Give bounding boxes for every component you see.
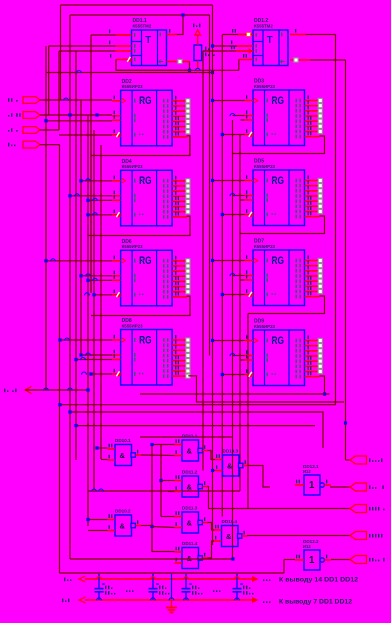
wire bbox=[59, 145, 61, 573]
DD9 output pin 6 bbox=[305, 365, 319, 367]
wire bbox=[88, 279, 112, 281]
DD10.2 input bbox=[108, 519, 116, 521]
svg-text:&: & bbox=[227, 462, 233, 471]
capacitor C4 hop over 0V rail bbox=[235, 598, 240, 601]
DD4 dynamic input marker bbox=[116, 212, 121, 217]
DD9 output indicator 4 bbox=[318, 354, 322, 358]
wire bbox=[101, 459, 108, 461]
DD5 dynamic input marker bbox=[248, 212, 253, 217]
DD1.1 input C stub bbox=[116, 50, 132, 52]
register DD3 bbox=[253, 90, 305, 146]
DD11.1 input bbox=[175, 444, 183, 446]
DD7 output indicator 4 bbox=[318, 274, 322, 278]
wire hop bbox=[230, 114, 235, 117]
label X3 bbox=[8, 130, 9, 132]
DD8 output indicator 1 bbox=[186, 338, 190, 342]
node bbox=[221, 293, 224, 296]
wire bbox=[70, 14, 210, 16]
wire bbox=[152, 444, 175, 446]
ground lead bbox=[171, 574, 173, 599]
DD11.4 output bbox=[203, 557, 209, 559]
NAND gate DD10.2 bbox=[115, 515, 135, 536]
DD6 output pin 6 bbox=[172, 286, 186, 288]
wire to XP1 bbox=[346, 459, 351, 461]
wire bbox=[239, 135, 241, 492]
DD7 input pin 4 bbox=[245, 294, 254, 296]
wire hop bbox=[92, 489, 97, 492]
DD7 output pin 1 bbox=[305, 260, 319, 262]
wire bbox=[46, 72, 213, 74]
label +5V left bbox=[64, 578, 65, 582]
connector XP4 bbox=[350, 532, 367, 540]
wire bbox=[76, 359, 112, 361]
wire bbox=[222, 134, 244, 136]
wire net SA2 bbox=[40, 114, 112, 116]
DD9 input pin 1 bbox=[245, 340, 254, 342]
DD10.3 output bbox=[243, 465, 249, 467]
label XP2 bbox=[369, 485, 370, 489]
node bbox=[74, 358, 77, 361]
node bbox=[95, 113, 98, 116]
node bbox=[221, 213, 224, 216]
svg-text:К выводу 7 DD1 DD12: К выводу 7 DD1 DD12 bbox=[279, 599, 353, 606]
DD10.3 input bbox=[215, 470, 223, 472]
wire bbox=[87, 525, 89, 527]
connector X5 arrow bbox=[25, 387, 32, 394]
DD11.4 input bbox=[175, 562, 183, 564]
wire bbox=[69, 15, 71, 559]
node bbox=[211, 259, 214, 262]
DD1.1 output Q- stub bbox=[167, 61, 177, 63]
capacitor C2 bbox=[149, 574, 159, 600]
DD6 input pin 3 bbox=[112, 279, 121, 281]
DD8 input pin 2 bbox=[112, 354, 121, 356]
register DD4 bbox=[121, 170, 173, 226]
wire bbox=[70, 412, 323, 448]
node bbox=[79, 179, 82, 182]
DD5 output indicator 5 bbox=[318, 199, 322, 203]
DD4 output indicator 4 bbox=[186, 194, 190, 198]
register DD5 bbox=[253, 170, 305, 226]
ground hop bbox=[169, 598, 174, 601]
DD2 output pin 6 bbox=[172, 126, 186, 128]
svg-text:RG: RG bbox=[139, 334, 152, 346]
DD1.2 clock arrow bbox=[249, 49, 253, 53]
DD4 input pin 2 bbox=[112, 195, 121, 197]
wire bbox=[75, 51, 77, 460]
DD7 clock arrow bbox=[254, 258, 258, 262]
DD5 input pin 3 bbox=[245, 199, 254, 201]
svg-text:&: & bbox=[187, 519, 193, 528]
wire bbox=[209, 15, 211, 356]
power rail +5V bbox=[85, 578, 252, 580]
DD10.4 output bbox=[242, 535, 248, 537]
wire bbox=[189, 136, 191, 156]
DD4 output pin 4 bbox=[172, 195, 186, 197]
DD4 output pin 2 bbox=[172, 185, 186, 187]
label C3 bbox=[192, 586, 193, 590]
DD4 output pin 5 bbox=[172, 200, 186, 202]
DD8 output pin 6 bbox=[172, 365, 186, 367]
svg-text:DD10.2: DD10.2 bbox=[115, 509, 131, 514]
DD9 output indicator 7 bbox=[318, 369, 322, 373]
rail arrow left +5V bbox=[79, 576, 86, 582]
wire bbox=[88, 530, 108, 532]
connector XP3 bbox=[350, 505, 367, 513]
DD3 output indicator 2 bbox=[318, 104, 322, 108]
R1 lead bottom bbox=[197, 61, 199, 69]
DD2 clock arrow bbox=[122, 99, 126, 103]
DD6 output indicator 6 bbox=[186, 285, 190, 289]
DD11.2 output bbox=[203, 486, 209, 488]
DD6 output pin 4 bbox=[172, 275, 186, 277]
register DD9 bbox=[253, 330, 305, 386]
DD3 input pin 1 bbox=[245, 100, 254, 102]
svg-text:&: & bbox=[187, 447, 193, 456]
DD5 output indicator 2 bbox=[318, 184, 322, 188]
svg-text:1: 1 bbox=[309, 480, 315, 491]
wire bbox=[213, 470, 216, 472]
DD2 dynamic input marker bbox=[116, 132, 121, 137]
node bbox=[150, 443, 153, 446]
wire bbox=[80, 100, 82, 356]
svg-text:DD10.4: DD10.4 bbox=[222, 519, 238, 524]
wire bbox=[97, 447, 108, 449]
wire bbox=[233, 195, 245, 197]
wire bbox=[238, 60, 240, 71]
DD7 output indicator 5 bbox=[318, 279, 322, 283]
wire hop bbox=[85, 293, 90, 296]
wire bbox=[241, 359, 245, 361]
DD9 output pin 4 bbox=[305, 355, 319, 357]
DD10.2 input bbox=[108, 530, 116, 532]
DD6 output pin 1 bbox=[172, 260, 186, 262]
DD11.4 input bbox=[175, 551, 183, 553]
DD5 output pin 6 bbox=[305, 205, 319, 207]
DD11.3 input bbox=[175, 516, 183, 518]
DD5 output pin 2 bbox=[305, 185, 319, 187]
DD5 output indicator 6 bbox=[318, 204, 322, 208]
wire hop bbox=[230, 194, 235, 197]
flip-flop DD1.1 bbox=[132, 30, 167, 66]
wire bbox=[222, 374, 244, 376]
node bbox=[95, 446, 98, 449]
capacitor C3 hop over 0V rail bbox=[184, 598, 189, 601]
DD4 output pin 8 bbox=[172, 216, 187, 218]
wire Q8 net bbox=[88, 216, 190, 235]
DD11.2 input bbox=[175, 480, 183, 482]
node bbox=[89, 372, 92, 375]
rail arrow right 0V bbox=[252, 597, 259, 603]
DD7 output pin 5 bbox=[305, 280, 319, 282]
wire bbox=[202, 51, 204, 471]
node bbox=[86, 199, 89, 202]
DD7 output indicator 6 bbox=[318, 284, 322, 288]
wire bbox=[233, 275, 245, 277]
wire bbox=[60, 339, 112, 341]
node bbox=[211, 44, 214, 47]
wire bbox=[60, 572, 285, 574]
DD5 output indicator 1 bbox=[318, 178, 322, 182]
label C1 bbox=[105, 586, 106, 590]
DD10.1 input bbox=[108, 448, 116, 450]
DD9 output indicator 1 bbox=[318, 338, 322, 342]
wire DD10.2 out bbox=[141, 525, 152, 527]
node bbox=[68, 113, 71, 116]
label R1 bbox=[205, 47, 206, 51]
svg-text:И12: И12 bbox=[303, 469, 311, 474]
DD9 output indicator 6 bbox=[318, 364, 322, 368]
svg-text:К555ИР23: К555ИР23 bbox=[254, 84, 276, 89]
label XP4 bbox=[369, 534, 370, 538]
wire bbox=[232, 120, 234, 559]
DD6 input pin 2 bbox=[112, 275, 121, 277]
svg-text:К выводу 14 DD1 DD12: К выводу 14 DD1 DD12 bbox=[279, 577, 359, 584]
wire Q8 net bbox=[240, 216, 325, 234]
DD7 output pin 2 bbox=[305, 265, 319, 267]
label X1 bbox=[8, 98, 9, 102]
DD3 dynamic input marker bbox=[248, 132, 253, 137]
svg-text:DD10.1: DD10.1 bbox=[115, 438, 131, 443]
DD6 output pin 8 bbox=[172, 296, 187, 298]
DD6 output indicator 2 bbox=[186, 264, 190, 268]
DD8 output indicator 8 bbox=[186, 374, 190, 378]
DD5 output pin 5 bbox=[305, 200, 319, 202]
label XP1 bbox=[369, 458, 370, 462]
DD8 output indicator 4 bbox=[186, 353, 190, 357]
DD4 input pin 3 bbox=[112, 199, 121, 201]
NAND gate DD11.4 bbox=[182, 548, 202, 569]
DD12.1 output bbox=[324, 484, 331, 486]
DD3 output indicator 3 bbox=[318, 109, 322, 113]
DD1.2 output Q- stub bbox=[290, 59, 293, 61]
wire DD10.1 out to DD11.1 bbox=[141, 454, 175, 457]
svg-text:RG: RG bbox=[139, 255, 152, 267]
wire bbox=[189, 62, 191, 71]
DD10.1 input bbox=[108, 459, 116, 461]
node bbox=[221, 373, 224, 376]
wire bbox=[168, 491, 175, 493]
NAND gate DD10.1 bbox=[115, 445, 135, 466]
svg-text:К555ИР23: К555ИР23 bbox=[254, 244, 276, 249]
wire bbox=[140, 393, 325, 395]
DD4 output pin 1 bbox=[172, 180, 186, 182]
DD1.2 input D stub bbox=[237, 45, 253, 47]
DD9 input pin 3 bbox=[245, 359, 254, 361]
DD3 output indicator 1 bbox=[318, 98, 322, 102]
wire bbox=[241, 279, 245, 281]
wire Q8 net bbox=[188, 376, 344, 402]
DD6 output indicator 5 bbox=[186, 279, 190, 283]
svg-text:1: 1 bbox=[309, 555, 315, 566]
wire DD12.2 out to XP5 bbox=[331, 559, 350, 561]
DD3 output pin 7 bbox=[305, 130, 319, 132]
wire bbox=[222, 214, 244, 216]
DD4 output pin 7 bbox=[172, 211, 186, 213]
DD2 input pin 3 bbox=[112, 119, 121, 121]
DD3 output pin 2 bbox=[305, 105, 319, 107]
svg-text:К555ИР23: К555ИР23 bbox=[122, 244, 144, 249]
svg-text:RG: RG bbox=[272, 335, 285, 347]
DD7 dynamic input marker bbox=[248, 292, 253, 297]
DD4 input pin 4 bbox=[112, 214, 121, 216]
wire bbox=[310, 59, 346, 61]
wire bbox=[284, 559, 295, 561]
DD9 output pin 7 bbox=[305, 370, 319, 372]
wire bbox=[40, 144, 60, 146]
NAND gate DD10.4 bbox=[222, 526, 242, 547]
wire bbox=[335, 35, 337, 405]
ellipsis bbox=[263, 579, 264, 581]
DD9 output pin 1 bbox=[305, 340, 319, 342]
wire hop bbox=[93, 213, 98, 216]
node bbox=[79, 274, 82, 277]
wire bbox=[183, 61, 190, 63]
DD9 input pin 2 bbox=[245, 355, 254, 357]
wire bbox=[46, 260, 112, 262]
DD8 dynamic input marker bbox=[116, 371, 121, 376]
DD2 output indicator 7 bbox=[186, 130, 190, 134]
DD11.2 input bbox=[175, 491, 183, 493]
DD9 output pin 5 bbox=[305, 360, 319, 362]
node bbox=[231, 557, 234, 560]
svg-text:RG: RG bbox=[139, 175, 152, 187]
rail arrow right +5V bbox=[252, 576, 259, 582]
inverter DD12.2 bbox=[304, 550, 324, 570]
wire DD11.3 out bbox=[208, 523, 215, 531]
DD3 output pin 8 bbox=[305, 136, 320, 138]
capacitor C1 bbox=[95, 574, 105, 600]
node bbox=[211, 469, 214, 472]
NAND gate DD11.1 bbox=[182, 440, 202, 461]
DD12.2 output bbox=[324, 559, 331, 561]
capacitor C1 hop over 0V rail bbox=[97, 598, 102, 601]
DD3 output indicator 7 bbox=[318, 129, 322, 133]
node bbox=[86, 213, 89, 216]
DD5 output pin 3 bbox=[305, 190, 319, 192]
wire bbox=[233, 115, 245, 117]
wire hop bbox=[93, 278, 98, 281]
wire bbox=[345, 60, 347, 460]
DD6 input pin 1 bbox=[112, 260, 121, 262]
DD9 output indicator 5 bbox=[318, 359, 322, 363]
DD5 output indicator 3 bbox=[318, 189, 322, 193]
R1 lead hop bbox=[195, 68, 200, 71]
DD4 output indicator 7 bbox=[186, 210, 190, 214]
DD6 output indicator 7 bbox=[186, 290, 190, 294]
DD4 output indicator 6 bbox=[186, 205, 190, 209]
wire bbox=[152, 445, 175, 552]
resistor R1 bbox=[194, 45, 202, 61]
node bbox=[79, 353, 82, 356]
wire bbox=[46, 120, 112, 122]
wire bbox=[241, 119, 245, 121]
DD2 output indicator 3 bbox=[186, 109, 190, 113]
DD9 output pin 3 bbox=[305, 350, 319, 352]
DD2 output indicator 1 bbox=[186, 99, 190, 103]
DD3 output pin 3 bbox=[305, 110, 319, 112]
wire net X5 bbox=[25, 389, 88, 391]
DD1.2 input R bbox=[239, 59, 253, 61]
wire bbox=[233, 355, 245, 357]
inverter DD12.1 bbox=[304, 475, 324, 495]
wire Q8 net bbox=[248, 296, 325, 314]
svg-text:DD11.1: DD11.1 bbox=[182, 434, 198, 439]
DD3 clock arrow bbox=[254, 98, 258, 102]
svg-text:DD11.4: DD11.4 bbox=[182, 541, 198, 546]
DD7 output pin 7 bbox=[305, 290, 319, 292]
wire bbox=[283, 560, 285, 574]
ellipsis bbox=[263, 601, 264, 603]
wire hop bbox=[230, 354, 235, 357]
wire bbox=[88, 519, 108, 521]
DD5 output pin 7 bbox=[305, 210, 319, 212]
wire bbox=[60, 5, 62, 100]
DD8 output indicator 5 bbox=[186, 359, 190, 363]
svg-text:&: & bbox=[226, 532, 232, 541]
wire Q to top rail bbox=[177, 15, 183, 35]
label X4 bbox=[8, 143, 9, 147]
wire bbox=[81, 275, 112, 277]
node bbox=[344, 421, 347, 424]
svg-text:RG: RG bbox=[272, 175, 285, 187]
wire bbox=[161, 516, 175, 518]
DD6 input pin 4 bbox=[112, 294, 121, 296]
DD2 output indicator 2 bbox=[186, 104, 190, 108]
wire bbox=[241, 199, 245, 201]
DD8 input pin 4 bbox=[112, 373, 121, 375]
wire hop bbox=[51, 259, 56, 262]
DD1.1 output Q stub bbox=[167, 34, 178, 36]
wire bbox=[152, 527, 175, 528]
label C2 bbox=[159, 586, 160, 590]
DD10.4 input bbox=[214, 540, 222, 542]
wire hop bbox=[44, 388, 49, 391]
DD5 clock arrow bbox=[254, 178, 258, 182]
DD2 input pin 1 bbox=[112, 100, 121, 102]
test point KT2 bbox=[294, 58, 298, 62]
DD1.1 input S stub bbox=[116, 34, 132, 36]
node bbox=[44, 259, 47, 262]
svg-text:К555ИР23: К555ИР23 bbox=[122, 164, 144, 169]
DD3 output pin 4 bbox=[305, 115, 319, 117]
wire bbox=[58, 51, 60, 130]
DD7 output indicator 3 bbox=[318, 269, 322, 273]
svg-text:И12: И12 bbox=[303, 544, 311, 549]
svg-text:К555ИР23: К555ИР23 bbox=[254, 324, 276, 329]
DD3 output indicator 6 bbox=[318, 124, 322, 128]
DD2 input pin 4 bbox=[112, 134, 121, 136]
node bbox=[92, 293, 95, 296]
wire hop bbox=[65, 338, 70, 341]
wire bbox=[247, 314, 249, 509]
capacitor C2 hop over +5V rail bbox=[151, 577, 156, 580]
label 0V left bbox=[62, 599, 63, 603]
DD9 clock arrow bbox=[254, 338, 258, 342]
DD1.1 input R bbox=[116, 59, 132, 61]
DD7 input pin 1 bbox=[245, 260, 254, 262]
DD3 output pin 6 bbox=[305, 125, 319, 127]
wire bbox=[306, 34, 336, 36]
node bbox=[211, 179, 214, 182]
wire bbox=[59, 134, 112, 136]
DD7 output indicator 1 bbox=[318, 258, 322, 262]
svg-text:К555ИР23: К555ИР23 bbox=[122, 323, 144, 328]
DD7 output pin 6 bbox=[305, 285, 319, 287]
DD11.3 output bbox=[203, 522, 209, 524]
DD1.2 output Q stub bbox=[290, 34, 306, 36]
node bbox=[86, 279, 89, 282]
